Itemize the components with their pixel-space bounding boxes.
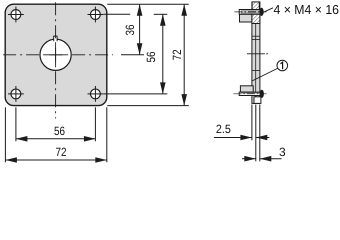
- dimension 72 (plate height): [170, 4, 187, 105]
- extension lines plate side edges: [4, 107, 6, 162]
- side view notch edge: [252, 35, 260, 37]
- dimension 56 (hole spacing vertical): [144, 14, 165, 94]
- bottom screw centerline: [233, 93, 266, 95]
- side view plate front face line: [255, 2, 257, 103]
- dimension 72 (plate width): [5, 145, 106, 163]
- side view horizontal centerline: [247, 53, 265, 55]
- extension line center: [121, 54, 144, 56]
- center hole d22.5: [40, 39, 71, 70]
- top screw centerline: [235, 11, 267, 13]
- extension line top hole center: [104, 13, 131, 15]
- corner hole bottom-left: [8, 86, 24, 102]
- top screw head: [260, 8, 264, 16]
- svg-text:72: 72: [56, 145, 67, 159]
- dimension 2.5 (collar): [214, 122, 269, 140]
- side view hole bottom edge: [252, 69, 260, 71]
- boss section hatch (below screw): [252, 14, 260, 23]
- bottom screw thread line: [241, 92, 260, 94]
- top clamp block: [240, 14, 252, 22]
- bottom clamp block: [240, 86, 253, 92]
- side view: plate cross-section: [252, 2, 260, 103]
- svg-text:3: 3: [279, 145, 286, 159]
- front view: mounting plate 72x72: [5, 4, 107, 105]
- svg-text:72: 72: [170, 49, 184, 60]
- item balloon 1: [277, 60, 288, 71]
- vertical centerline: [55, 1, 57, 119]
- corner hole bottom-right: [88, 86, 104, 102]
- svg-text:56: 56: [54, 124, 65, 138]
- svg-text:4 × M4 × 16: 4 × M4 × 16: [274, 2, 340, 17]
- top screw M4x16 shaft: [239, 10, 260, 15]
- extension line plate bottom edge: [107, 105, 189, 107]
- top screw thread lines: [241, 10, 260, 12]
- item balloon 1 leader: [252, 68, 278, 81]
- corner hole top-right: [88, 7, 104, 23]
- extension lines bottom holes: [15, 107, 17, 141]
- extension line plate back face: [259, 105, 261, 162]
- bottom screw M4x16 shaft: [239, 92, 260, 95]
- dimension 36 (top edge to center): [123, 4, 142, 55]
- extension line bottom hole center: [104, 93, 168, 95]
- dimension 3 (plate thickness): [242, 145, 286, 162]
- horizontal centerline: [1, 54, 114, 56]
- side view hole top edge: [252, 38, 260, 40]
- svg-text:56: 56: [144, 51, 158, 62]
- corner hole top-left: [8, 7, 24, 23]
- top boss section hatch (above screw): [252, 2, 259, 10]
- extension line plate front face: [255, 105, 257, 162]
- svg-text:36: 36: [123, 24, 137, 35]
- anti-rotation notch: [54, 36, 57, 41]
- label leader 4xM4x16: [263, 8, 273, 13]
- dimension 56 (hole spacing horizontal): [16, 124, 96, 141]
- bottom spacer block: [254, 97, 261, 104]
- bottom screw head: [260, 90, 264, 98]
- svg-text:2.5: 2.5: [216, 122, 231, 136]
- extension line plate top edge: [107, 3, 189, 5]
- extension line collar front face: [251, 105, 253, 141]
